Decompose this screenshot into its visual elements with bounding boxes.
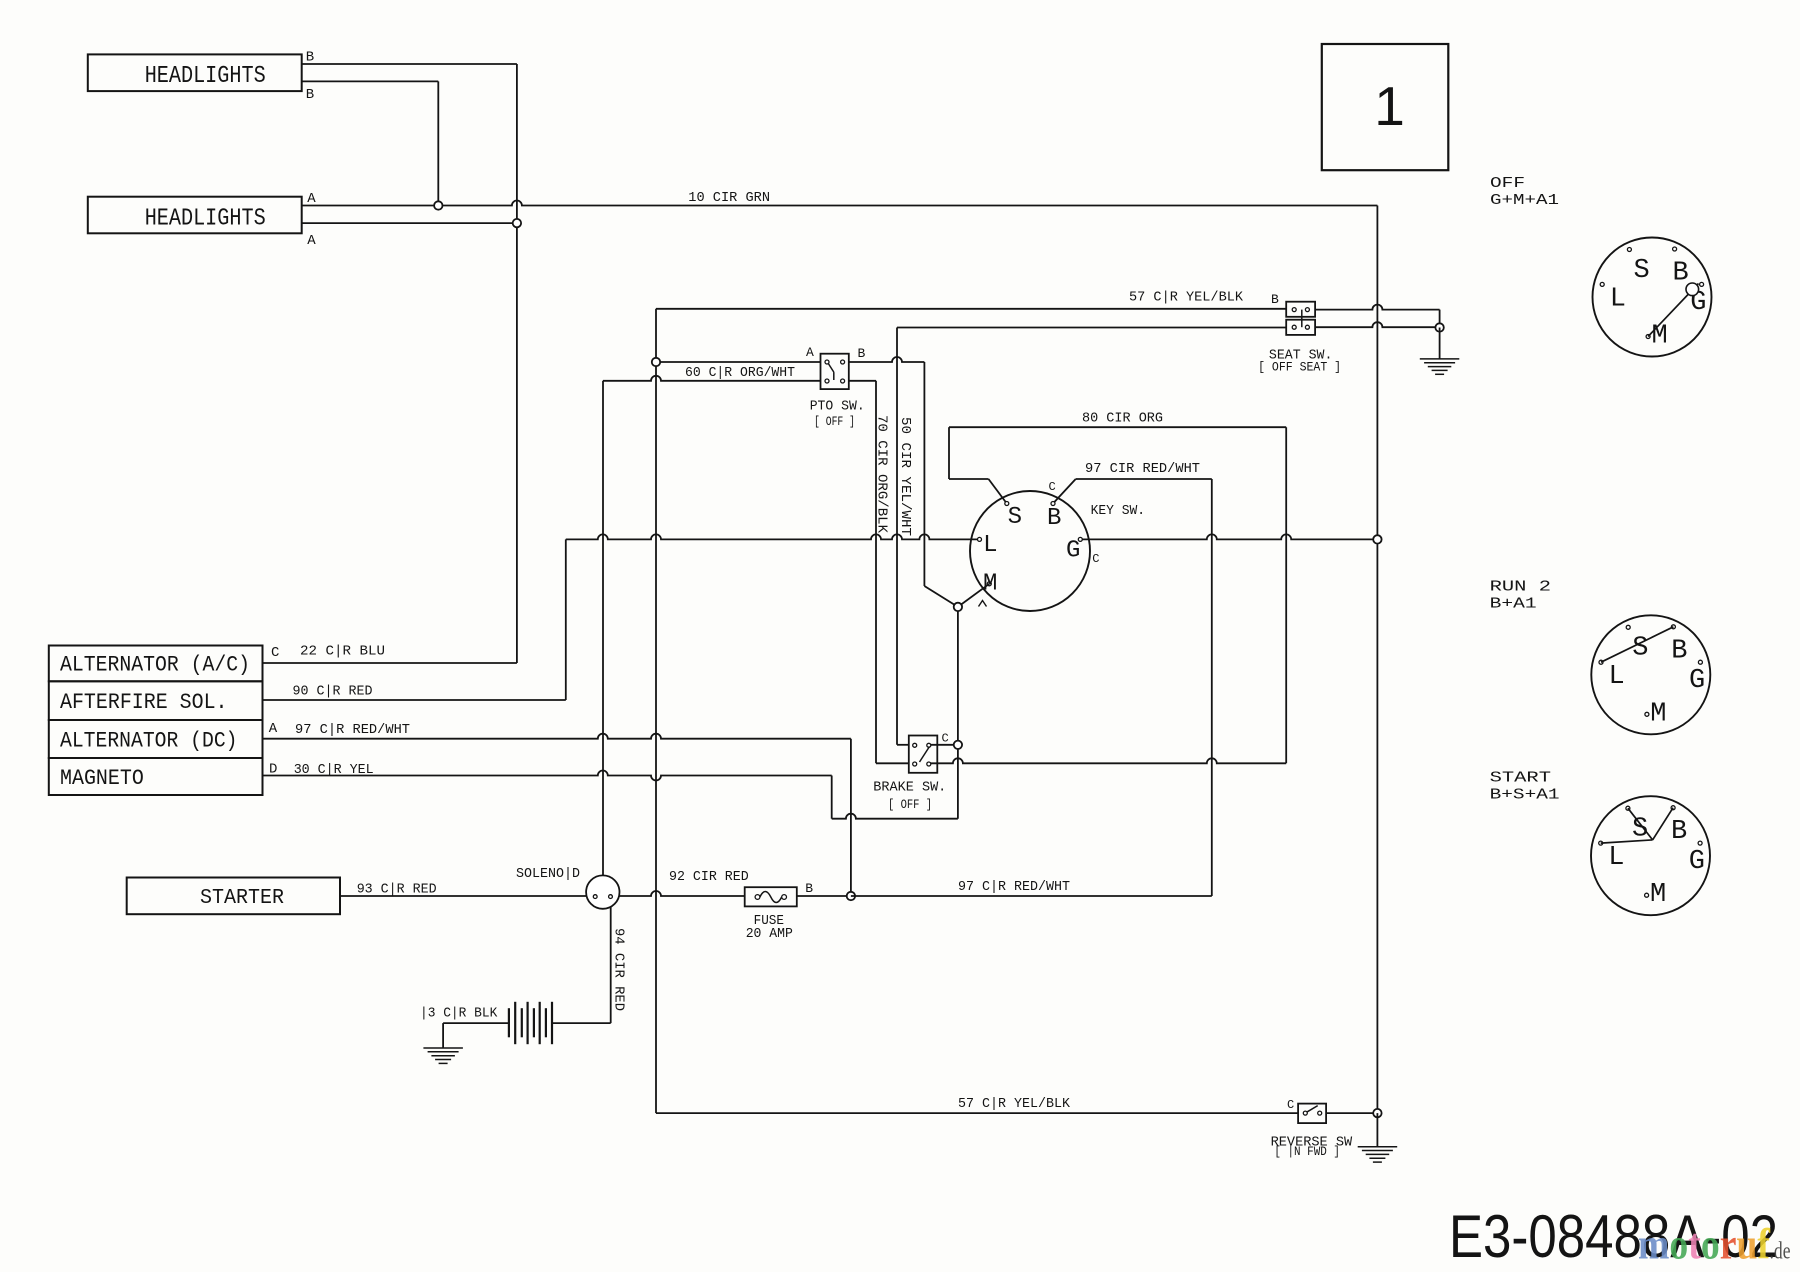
component: afterfire solenoid box xyxy=(49,681,263,720)
wire: 90 C|R RED afterfire solenoid xyxy=(263,699,566,701)
switch: SEAT SW. lower pole xyxy=(1286,320,1315,335)
wire: brake upper-right to C junction xyxy=(929,744,958,746)
svg-text:60 C|R ORG/WHT: 60 C|R ORG/WHT xyxy=(685,366,795,381)
svg-text:KEY SW.: KEY SW. xyxy=(1091,504,1146,519)
svg-text:57 C|R YEL/BLK: 57 C|R YEL/BLK xyxy=(958,1097,1071,1112)
component: battery xyxy=(508,1008,510,1037)
svg-text:G: G xyxy=(1689,666,1705,696)
component: ignition dial RUN 2 (B+A1) xyxy=(1591,615,1710,734)
pin M key switch xyxy=(987,582,991,586)
svg-text:C: C xyxy=(1049,480,1056,494)
wire: 80 CIR ORG right riser to brake switch xyxy=(1285,427,1287,763)
component: fuse 20 AMP xyxy=(745,887,797,906)
component: figure number box 1 xyxy=(1322,44,1449,170)
svg-text:ALTERNATOR (A/C): ALTERNATOR (A/C) xyxy=(60,652,250,678)
svg-text:L: L xyxy=(1608,662,1624,692)
node: junction key G / ground rail xyxy=(1373,535,1381,543)
svg-text:[ OFF SEAT ]: [ OFF SEAT ] xyxy=(1258,360,1341,375)
ground: seat switch ground xyxy=(1420,358,1460,360)
node: junction brake C on riser x=958 xyxy=(954,741,962,749)
wire: 60 C|R ORG/WHT from PTO lower-left to solenoid riser xyxy=(603,376,821,381)
svg-text:70 CIR ORG/BLK: 70 CIR ORG/BLK xyxy=(874,415,890,534)
component: alternator A/C box xyxy=(49,646,263,682)
wire: fuse B to junction xyxy=(797,895,851,897)
switch: BRAKE SW. [OFF] xyxy=(909,736,938,773)
wire: seat switch lower-right to ground junction xyxy=(1315,322,1440,327)
svg-text:1: 1 xyxy=(1374,75,1405,137)
svg-text:A: A xyxy=(307,191,316,207)
wire: 94 CIR RED solenoid to battery + xyxy=(610,907,612,1024)
svg-text:93 C|R RED: 93 C|R RED xyxy=(357,882,437,897)
pin L key switch xyxy=(978,537,982,541)
svg-text:S: S xyxy=(1632,634,1648,664)
svg-text:A: A xyxy=(806,345,814,360)
switch: PTO SW. [OFF] xyxy=(821,354,849,389)
svg-text:PTO SW.: PTO SW. xyxy=(810,400,865,415)
svg-text:20 AMP: 20 AMP xyxy=(746,927,793,942)
svg-text:30 C|R YEL: 30 C|R YEL xyxy=(294,763,374,778)
wire: brake lower-right to 80 CIR ORG riser xyxy=(929,758,1286,763)
svg-text:97 C|R RED/WHT: 97 C|R RED/WHT xyxy=(958,880,1070,895)
component: headlight 2 box xyxy=(88,197,302,234)
wire: 92 CIR RED solenoid to fuse xyxy=(619,891,744,896)
component: key switch KEY SW. xyxy=(970,491,1090,611)
svg-text:M: M xyxy=(1650,699,1666,729)
wire: key M to A junction diagonal xyxy=(958,584,989,607)
wire: 97 CIR RED/WHT from key B xyxy=(1053,479,1076,504)
svg-text:C: C xyxy=(942,731,949,745)
wire: reverse switch to ground junction xyxy=(1326,1112,1377,1114)
svg-text:L: L xyxy=(983,532,997,559)
wire: alternator DC riser x=851 to fuse junction xyxy=(850,739,852,896)
wire: seat switch lower feed (from 50 CIR riser) xyxy=(897,327,1286,329)
svg-text:B: B xyxy=(858,346,866,361)
wire: 80 CIR ORG elbow at key S xyxy=(948,427,950,479)
wire: 10 CIR GRN main ground feed (headlight A to right rail) xyxy=(302,200,1378,205)
svg-text:80 CIR ORG: 80 CIR ORG xyxy=(1082,411,1163,426)
svg-text:B: B xyxy=(805,881,813,896)
wire: seat switch upper-right to ground corner xyxy=(1315,305,1440,310)
svg-text:START: START xyxy=(1490,770,1552,786)
ground: reverse switch ground xyxy=(1358,1146,1398,1148)
wire: diagonal to key S terminal xyxy=(989,479,1007,504)
node: junction headlight A / blue circuit xyxy=(513,219,521,227)
svg-text:B: B xyxy=(1271,292,1279,307)
svg-text:B+A1: B+A1 xyxy=(1490,597,1537,613)
pointer RUN2 dial L to B xyxy=(1601,627,1673,662)
component: alternator DC box xyxy=(49,720,263,758)
switch gang bar seat switch xyxy=(1301,310,1303,328)
wire: 30 C|R YEL magneto xyxy=(263,771,832,781)
svg-text:M: M xyxy=(983,570,997,597)
wire: 70 CIR ORG/BLK riser x=876 to brake lower-left xyxy=(875,381,877,764)
wire: PTO lower-right to 70 CIR ORG/BLK riser xyxy=(849,380,876,382)
wire: 80 CIR ORG top run xyxy=(949,426,1286,428)
svg-text:L: L xyxy=(1608,843,1624,873)
svg-text:MAGNETO: MAGNETO xyxy=(60,765,144,791)
svg-text:B: B xyxy=(1671,636,1687,666)
svg-text:M: M xyxy=(1650,880,1666,910)
svg-text:10 CIR GRN: 10 CIR GRN xyxy=(688,191,770,206)
switch: REVERSE SW [IN FWD] xyxy=(1298,1104,1326,1124)
wire: magneto elbow xyxy=(831,776,833,819)
node: junction fuse B / alternator DC / 97 run xyxy=(847,892,855,900)
svg-text:AFTERFIRE SOL.: AFTERFIRE SOL. xyxy=(60,689,228,715)
svg-text:[ |N FWD ]: [ |N FWD ] xyxy=(1274,1144,1340,1159)
svg-text:S: S xyxy=(1633,256,1649,286)
wire: solenoid coil riser x=603 xyxy=(602,381,604,876)
pin A key switch (caret) xyxy=(979,601,987,607)
pin S key switch xyxy=(1005,502,1009,506)
wire: key L feed from afterfire riser xyxy=(566,534,980,539)
wire: 22 C|R BLU alternator AC xyxy=(263,662,517,664)
svg-text:50 CIR YEL/WHT: 50 CIR YEL/WHT xyxy=(897,417,913,536)
svg-text:HEADLIGHTS: HEADLIGHTS xyxy=(145,63,266,90)
wire: stub to reverse ground xyxy=(1376,1113,1378,1147)
svg-text:M: M xyxy=(1651,322,1667,352)
svg-text:22 C|R BLU: 22 C|R BLU xyxy=(300,644,385,659)
component: starter box xyxy=(127,878,340,915)
svg-text:RUN 2: RUN 2 xyxy=(1490,579,1551,595)
node: junction reverse switch / ground rail xyxy=(1373,1109,1381,1117)
svg-text:B: B xyxy=(306,87,314,103)
svg-text:B: B xyxy=(1671,817,1687,847)
wire: 57 C|R YEL/BLK top run to seat switch xyxy=(656,308,1286,310)
pointer OFF dial M to G xyxy=(1648,284,1698,337)
wire: vertical link x=517 headlights to 22 C|R BLU xyxy=(516,64,518,663)
node: key A junction xyxy=(954,603,962,611)
wire: riser x=924 from PTO B to key switch A xyxy=(923,362,925,586)
wire: 50 CIR YEL/WHT riser x=897 to brake upper-left xyxy=(896,328,898,745)
svg-text:97 CIR RED/WHT: 97 CIR RED/WHT xyxy=(1085,462,1200,477)
svg-text:C: C xyxy=(271,645,279,661)
svg-text:90 C|R RED: 90 C|R RED xyxy=(293,684,373,699)
svg-text:92 CIR RED: 92 CIR RED xyxy=(669,870,749,885)
wire: riser x=958 key M/A to brake C and magneto xyxy=(957,607,959,819)
svg-text:L: L xyxy=(1610,284,1626,314)
svg-text:B+S+A1: B+S+A1 xyxy=(1490,788,1560,804)
svg-text:C: C xyxy=(1092,552,1099,566)
svg-text:G+M+A1: G+M+A1 xyxy=(1490,193,1559,209)
component: magneto box xyxy=(49,758,263,795)
svg-text:|3 C|R BLK: |3 C|R BLK xyxy=(420,1006,498,1021)
svg-text:OFF: OFF xyxy=(1490,176,1525,192)
wire: 60 C|R ORG/WHT junction tap to PTO A xyxy=(656,361,821,363)
svg-text:B: B xyxy=(306,50,314,66)
svg-text:A: A xyxy=(307,233,316,249)
svg-text:97 C|R RED/WHT: 97 C|R RED/WHT xyxy=(295,723,410,738)
component: solenoid xyxy=(586,875,619,908)
pin B key switch xyxy=(1051,502,1055,506)
wire: right ground rail x=1377 (10 CIR GRN down to reverse switch) xyxy=(1376,206,1378,1114)
wire: diagonal into key A junction xyxy=(924,586,958,607)
node: junction seat switch to ground xyxy=(1435,323,1443,331)
wire: stub to seat ground xyxy=(1439,328,1441,359)
svg-text:G: G xyxy=(1689,847,1705,877)
wire: 97 C|R RED/WHT alternator DC xyxy=(263,734,851,739)
svg-text:[ OFF ]: [ OFF ] xyxy=(888,797,932,812)
wire: headlight A bottom xyxy=(302,222,517,224)
wire: 97 CIR RED/WHT riser x=1212 xyxy=(1211,479,1213,896)
switch: SEAT SW. [OFF SEAT] upper pole xyxy=(1286,302,1315,317)
svg-text:C: C xyxy=(1287,1098,1294,1112)
svg-text:BRAKE SW.: BRAKE SW. xyxy=(873,781,946,796)
wire: headlight B top (to node at x=517) xyxy=(302,63,517,65)
svg-text:.de: .de xyxy=(1770,1239,1791,1265)
svg-text:94 CIR RED: 94 CIR RED xyxy=(611,928,627,1011)
svg-text:B: B xyxy=(1047,505,1061,532)
wire: PTO B to 50-riser corner xyxy=(849,357,925,362)
wire: 93 C|R RED starter to solenoid xyxy=(340,895,586,897)
node: junction headlights B/A on 10 CIR GRN xyxy=(434,201,442,209)
node: junction 57-rail / PTO feed xyxy=(652,358,660,366)
svg-text:A: A xyxy=(269,721,278,737)
svg-text:[ OFF ]: [ OFF ] xyxy=(814,414,855,429)
wire: 97 C|R RED/WHT bottom run xyxy=(851,895,1212,897)
wire: 57 YEL/BLK safety rail x=656 (top corner to bottom reverse run) xyxy=(655,309,657,1113)
svg-text:HEADLIGHTS: HEADLIGHTS xyxy=(145,206,266,233)
wire: afterfire riser x=566 to key L xyxy=(565,539,567,700)
svg-text:B: B xyxy=(1672,259,1688,289)
component: ignition dial START (B+S+A1) xyxy=(1591,796,1710,915)
svg-text:STARTER: STARTER xyxy=(200,887,284,910)
ground: battery ground xyxy=(423,1047,463,1049)
svg-text:G: G xyxy=(1066,538,1080,565)
svg-text:S: S xyxy=(1008,504,1022,531)
svg-text:motoruf: motoruf xyxy=(1638,1222,1771,1269)
pointer START dial L/S/B xyxy=(1601,840,1653,843)
svg-text:57 C|R YEL/BLK: 57 C|R YEL/BLK xyxy=(1129,290,1244,305)
svg-text:D: D xyxy=(269,762,277,778)
svg-text:ALTERNATOR (DC): ALTERNATOR (DC) xyxy=(60,727,238,753)
pin G key switch xyxy=(1078,537,1082,541)
svg-text:SOLENO|D: SOLENO|D xyxy=(516,867,580,882)
wire: headlight B bottom down-link xyxy=(302,80,439,82)
component: headlight 1 box xyxy=(88,54,302,91)
component: ignition dial OFF (G+M+A1) xyxy=(1593,238,1712,357)
wire: 57 C|R YEL/BLK bottom run to reverse switch xyxy=(656,1112,1298,1114)
wire: key G to right ground rail xyxy=(1080,534,1377,539)
wire: 13 C|R BLK battery - to ground xyxy=(443,1022,509,1024)
